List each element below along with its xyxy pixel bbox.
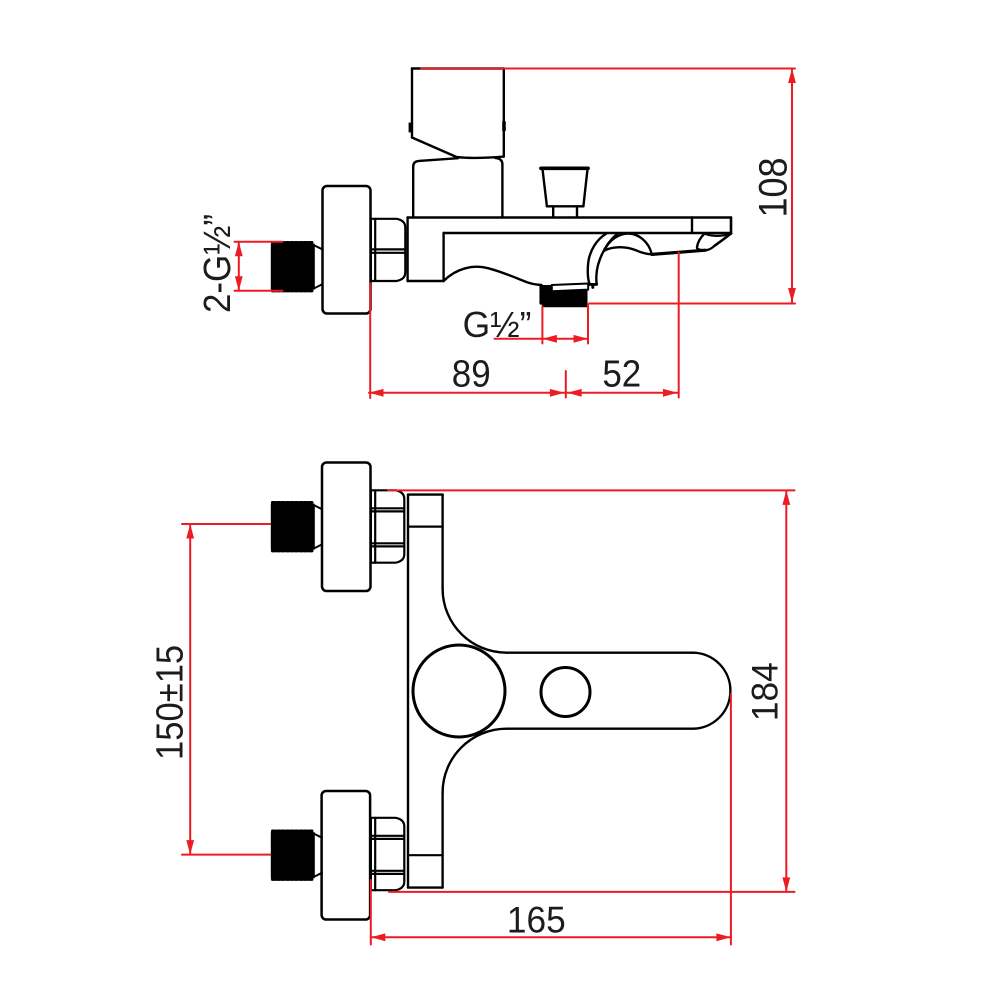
diverter knob top cap [541, 167, 588, 171]
arrow 2-G1/2 top [235, 242, 243, 257]
svg-text:89: 89 [452, 352, 491, 395]
hex nut top (front) [371, 490, 404, 562]
centerline top nipple (red, under parts) [182, 523, 313, 525]
svg-text:184: 184 [743, 662, 785, 721]
arm top fillet [443, 589, 507, 653]
dim line 108 [791, 69, 793, 303]
hex nut (top view) [371, 219, 405, 281]
small circle [541, 668, 590, 717]
deck right edge [730, 218, 733, 234]
centerline bottom nipple (red, under parts) [182, 854, 313, 856]
inlet taper top (front) [315, 506, 322, 548]
arm top edge [507, 652, 693, 654]
arrow 108 top [788, 69, 796, 84]
184 extension bottom [389, 891, 795, 893]
svg-text:165: 165 [507, 898, 566, 940]
arm round cap [692, 653, 730, 729]
spout corner slant [715, 234, 732, 246]
handle lever body [412, 69, 504, 158]
outlet thread serration bottom [544, 304, 587, 307]
inlet nipple bottom (front, black threaded) [271, 832, 315, 878]
spout heel inner curve [596, 234, 617, 284]
arrow 150 bottom [186, 840, 194, 855]
inlet nipple top (front, black threaded) [271, 504, 315, 550]
valve body circle [413, 645, 505, 737]
spout tip sliver curve [705, 234, 730, 236]
G1/2 extension right [587, 305, 589, 344]
body block under deck [408, 218, 444, 282]
hex nut bottom (front) [371, 818, 404, 890]
inlet taper (top view) [315, 246, 322, 288]
arrow 184 bottom [782, 877, 790, 892]
89 extension left (wall) [369, 284, 371, 399]
spout tip extension line [678, 253, 680, 398]
outlet collar [552, 284, 588, 292]
deck notch line [691, 218, 693, 234]
arrow 2-G1/2 bottom [235, 276, 243, 291]
arrow 165 left [371, 933, 386, 941]
svg-text:52: 52 [602, 352, 641, 395]
spout heel foot [580, 284, 597, 287]
dim line 165 [371, 936, 731, 938]
svg-text:G½”: G½” [463, 304, 532, 346]
arrow 52 right [663, 389, 678, 397]
body step line top [408, 525, 443, 527]
deck top edge [408, 216, 731, 219]
dim line 184 [785, 490, 787, 892]
body step line bottom [408, 854, 443, 856]
wall flange top (front) [322, 463, 371, 592]
inlet taper bottom (front) [315, 834, 322, 876]
chain middle tick [565, 371, 567, 398]
inlet nipple 2-G1/2 (top view, black threaded) [271, 244, 315, 290]
arrow 108 bottom [788, 288, 796, 303]
spout tip outer curve [697, 234, 706, 251]
diverter knob stem [553, 206, 577, 216]
arm bottom fillet [443, 729, 507, 793]
spout heel outer curve [588, 234, 607, 284]
svg-text:108: 108 [752, 157, 796, 217]
handle notch left [409, 123, 413, 133]
arrow 184 top [782, 490, 790, 505]
165 extension left [370, 880, 372, 945]
diverter knob cup [543, 170, 588, 206]
spout dome curve [605, 234, 652, 254]
arrow 89 right (at tick) [550, 389, 565, 397]
red reference line outlet bottom (108 lower) [589, 303, 795, 305]
handle notch right [502, 121, 506, 131]
arrow 52 left (at tick) [567, 389, 582, 397]
arrow 165 right [716, 933, 731, 941]
G1/2 extension left [541, 307, 543, 344]
cartridge housing [413, 158, 458, 217]
arm bottom edge [507, 728, 693, 730]
body bar outline [408, 495, 443, 888]
2-G1/2 extension bottom [235, 290, 283, 292]
G1/2 dim line with leader [495, 338, 589, 340]
2-G1/2 extension top [235, 241, 283, 243]
spout tip inner curve [706, 246, 715, 250]
chained dim line 89 / 52 [369, 392, 678, 394]
spout belly curve [605, 247, 653, 254]
arrow G1/2 left [542, 335, 557, 343]
arrow 89 left [369, 389, 384, 397]
underside hump curve [444, 267, 542, 285]
outlet thread serration left [539, 287, 543, 305]
wall flange (top view) [323, 186, 371, 314]
wall flange bottom (front) [322, 791, 371, 920]
deck plate bottom edge [444, 232, 731, 234]
arrow G1/2 right [574, 335, 589, 343]
spout bottom lip [652, 250, 706, 254]
arrow 150 top [186, 524, 194, 539]
red reference line top (108 upper) [421, 68, 795, 70]
outlet thread G1/2 (black) [542, 285, 554, 305]
svg-text:150±15: 150±15 [148, 645, 191, 760]
dim line 2-G1/2 [238, 242, 240, 291]
svg-text:2-G½”: 2-G½” [196, 214, 239, 313]
165 extension right [730, 694, 732, 945]
184 extension top [388, 489, 795, 491]
dim line 150+-15 [189, 524, 191, 855]
